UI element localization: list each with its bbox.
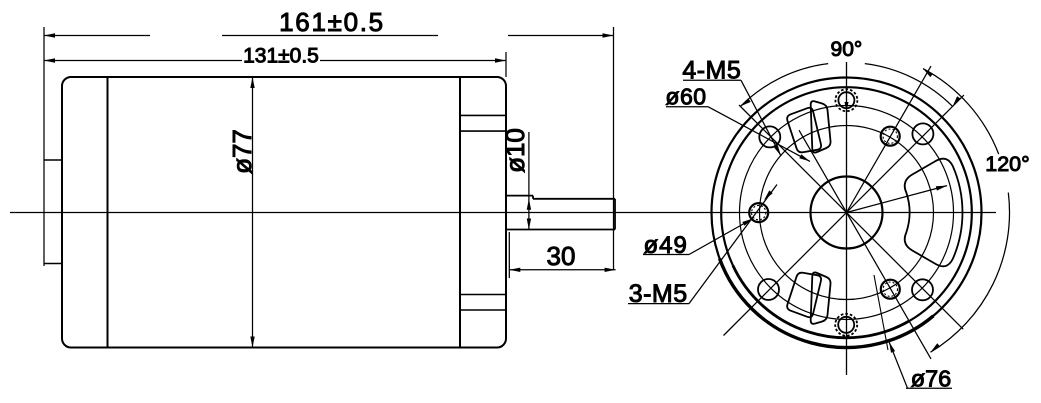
- dim dia10 line: [528, 132, 530, 230]
- dim dia77 top arrow: [250, 77, 254, 88]
- vertical center line: [846, 62, 848, 375]
- dim dia10 upper arrow: [527, 199, 531, 210]
- leader dia49 line: [689, 219, 753, 255]
- radial 15 with arrow: [847, 186, 948, 213]
- dim 90deg arc seg2: [740, 64, 828, 107]
- dim 161 line seg2: [222, 35, 438, 37]
- hole 4-M5 #2: [759, 126, 780, 147]
- svg-text:ø77: ø77: [227, 129, 257, 174]
- dim 161 line seg3: [508, 35, 614, 37]
- leader dia60 underline: [666, 106, 708, 108]
- leader dia49 underline: [643, 254, 689, 256]
- body circle heavy arc: [733, 266, 909, 338]
- dim 30 right arrow: [605, 268, 616, 272]
- vent slot top-left tilted: [787, 108, 821, 153]
- dim 120deg top arrow: [923, 69, 933, 78]
- leader dia60 arrow: [799, 154, 810, 161]
- rear boss bottom edge: [44, 263, 62, 265]
- front flange step line 2: [460, 130, 506, 132]
- shaft top edge: [533, 198, 615, 200]
- hole 4-M5 #3: [758, 279, 779, 300]
- front flange step line 4: [460, 309, 506, 311]
- dim 131 left arrow: [44, 58, 55, 62]
- dim 131 line seg1: [44, 60, 242, 62]
- hole 3-M5 #1: [881, 127, 900, 146]
- leader 4-M5 underline: [683, 79, 741, 81]
- arrow at top hole: [845, 102, 849, 112]
- dim 131 right extension: [505, 52, 507, 77]
- dim 30 left arrow: [509, 268, 520, 272]
- shaft step: [532, 196, 534, 199]
- shaft bottom edge: [506, 229, 615, 231]
- leader 4-M5 arrow: [774, 145, 781, 156]
- dim 161 left arrow: [44, 33, 55, 37]
- dim 90deg right arrow: [953, 96, 961, 106]
- dim dia10 lower arrow: [527, 219, 531, 230]
- leader 4-M5 line: [741, 80, 781, 156]
- flange outer circle heavy arc: [720, 259, 934, 348]
- body circle: [721, 87, 972, 338]
- dim 120deg bottom arrow: [931, 343, 941, 352]
- dim 161 right arrow: [603, 33, 614, 37]
- leader dia49 arrow: [742, 219, 753, 226]
- extension line near dia76 leader: [874, 275, 888, 350]
- dim dia77 bottom arrow: [250, 337, 254, 348]
- front flange step line 1: [460, 114, 506, 116]
- shaft shoulder top: [506, 195, 533, 197]
- vent slot bottom-left tilted: [787, 273, 821, 318]
- diagonal 45-225: [724, 95, 964, 335]
- through-bolt hole bottom: [835, 314, 857, 336]
- front flange step line 3: [460, 294, 506, 296]
- dim 120deg arc seg1: [923, 69, 999, 155]
- svg-text:ø10: ø10: [500, 128, 530, 173]
- dim 90deg arc seg1: [865, 64, 953, 107]
- dim 161 right extension line: [613, 27, 615, 270]
- leader 3-M5 underline: [628, 303, 689, 305]
- motor body outline: [62, 77, 506, 348]
- hole 4-M5 #4: [912, 279, 933, 300]
- leader dia76 underline: [906, 387, 952, 389]
- leader 3-M5 arrow: [764, 190, 773, 200]
- svg-text:ø60: ø60: [665, 84, 706, 110]
- svg-text:30: 30: [547, 241, 576, 271]
- hole 3-M5 #3: [881, 280, 900, 299]
- dim 131 line seg2: [320, 60, 506, 62]
- horizontal center line: [10, 212, 996, 214]
- dim dia77 line: [252, 77, 254, 348]
- rear boss top edge: [44, 159, 62, 161]
- dim 161 left extension line: [43, 27, 45, 266]
- diagonal 135-315: [739, 105, 963, 329]
- leader 3-M5 line: [689, 185, 777, 304]
- dim 120deg arc seg2: [931, 193, 1010, 353]
- dim 161 line seg1: [44, 35, 150, 37]
- vent slot top-right tall: [811, 101, 831, 152]
- svg-text:161±0.5: 161±0.5: [279, 7, 385, 37]
- radial 60: [847, 66, 932, 212]
- hole 3-M5 #2: [749, 203, 768, 222]
- leader dia76 arrow: [889, 342, 895, 353]
- bolt circle dia60: [740, 106, 954, 320]
- shaft end: [614, 199, 616, 230]
- leader dia60 line: [708, 107, 810, 162]
- dim 131 right arrow: [495, 58, 506, 62]
- vent slot bottom-right tall: [811, 272, 831, 323]
- flange outer circle: [712, 78, 982, 348]
- dim 30 left extension: [508, 232, 510, 278]
- through-bolt hole top: [835, 89, 857, 111]
- dim 30 line: [509, 269, 615, 271]
- hole 4-M5 #1: [912, 123, 933, 144]
- bolt circle dia49: [760, 126, 934, 300]
- vent slot right kidney: [905, 159, 963, 267]
- dim 90deg left arrow: [740, 98, 750, 106]
- center boss circle: [811, 177, 883, 249]
- diagonal 120-300: [799, 130, 931, 359]
- front end-cap joint line: [459, 77, 461, 348]
- rear end-cap joint line: [107, 77, 109, 348]
- svg-text:90°: 90°: [831, 38, 863, 61]
- svg-text:120°: 120°: [985, 152, 1029, 176]
- svg-text:131±0.5: 131±0.5: [243, 45, 319, 68]
- leader dia76 line: [889, 342, 908, 389]
